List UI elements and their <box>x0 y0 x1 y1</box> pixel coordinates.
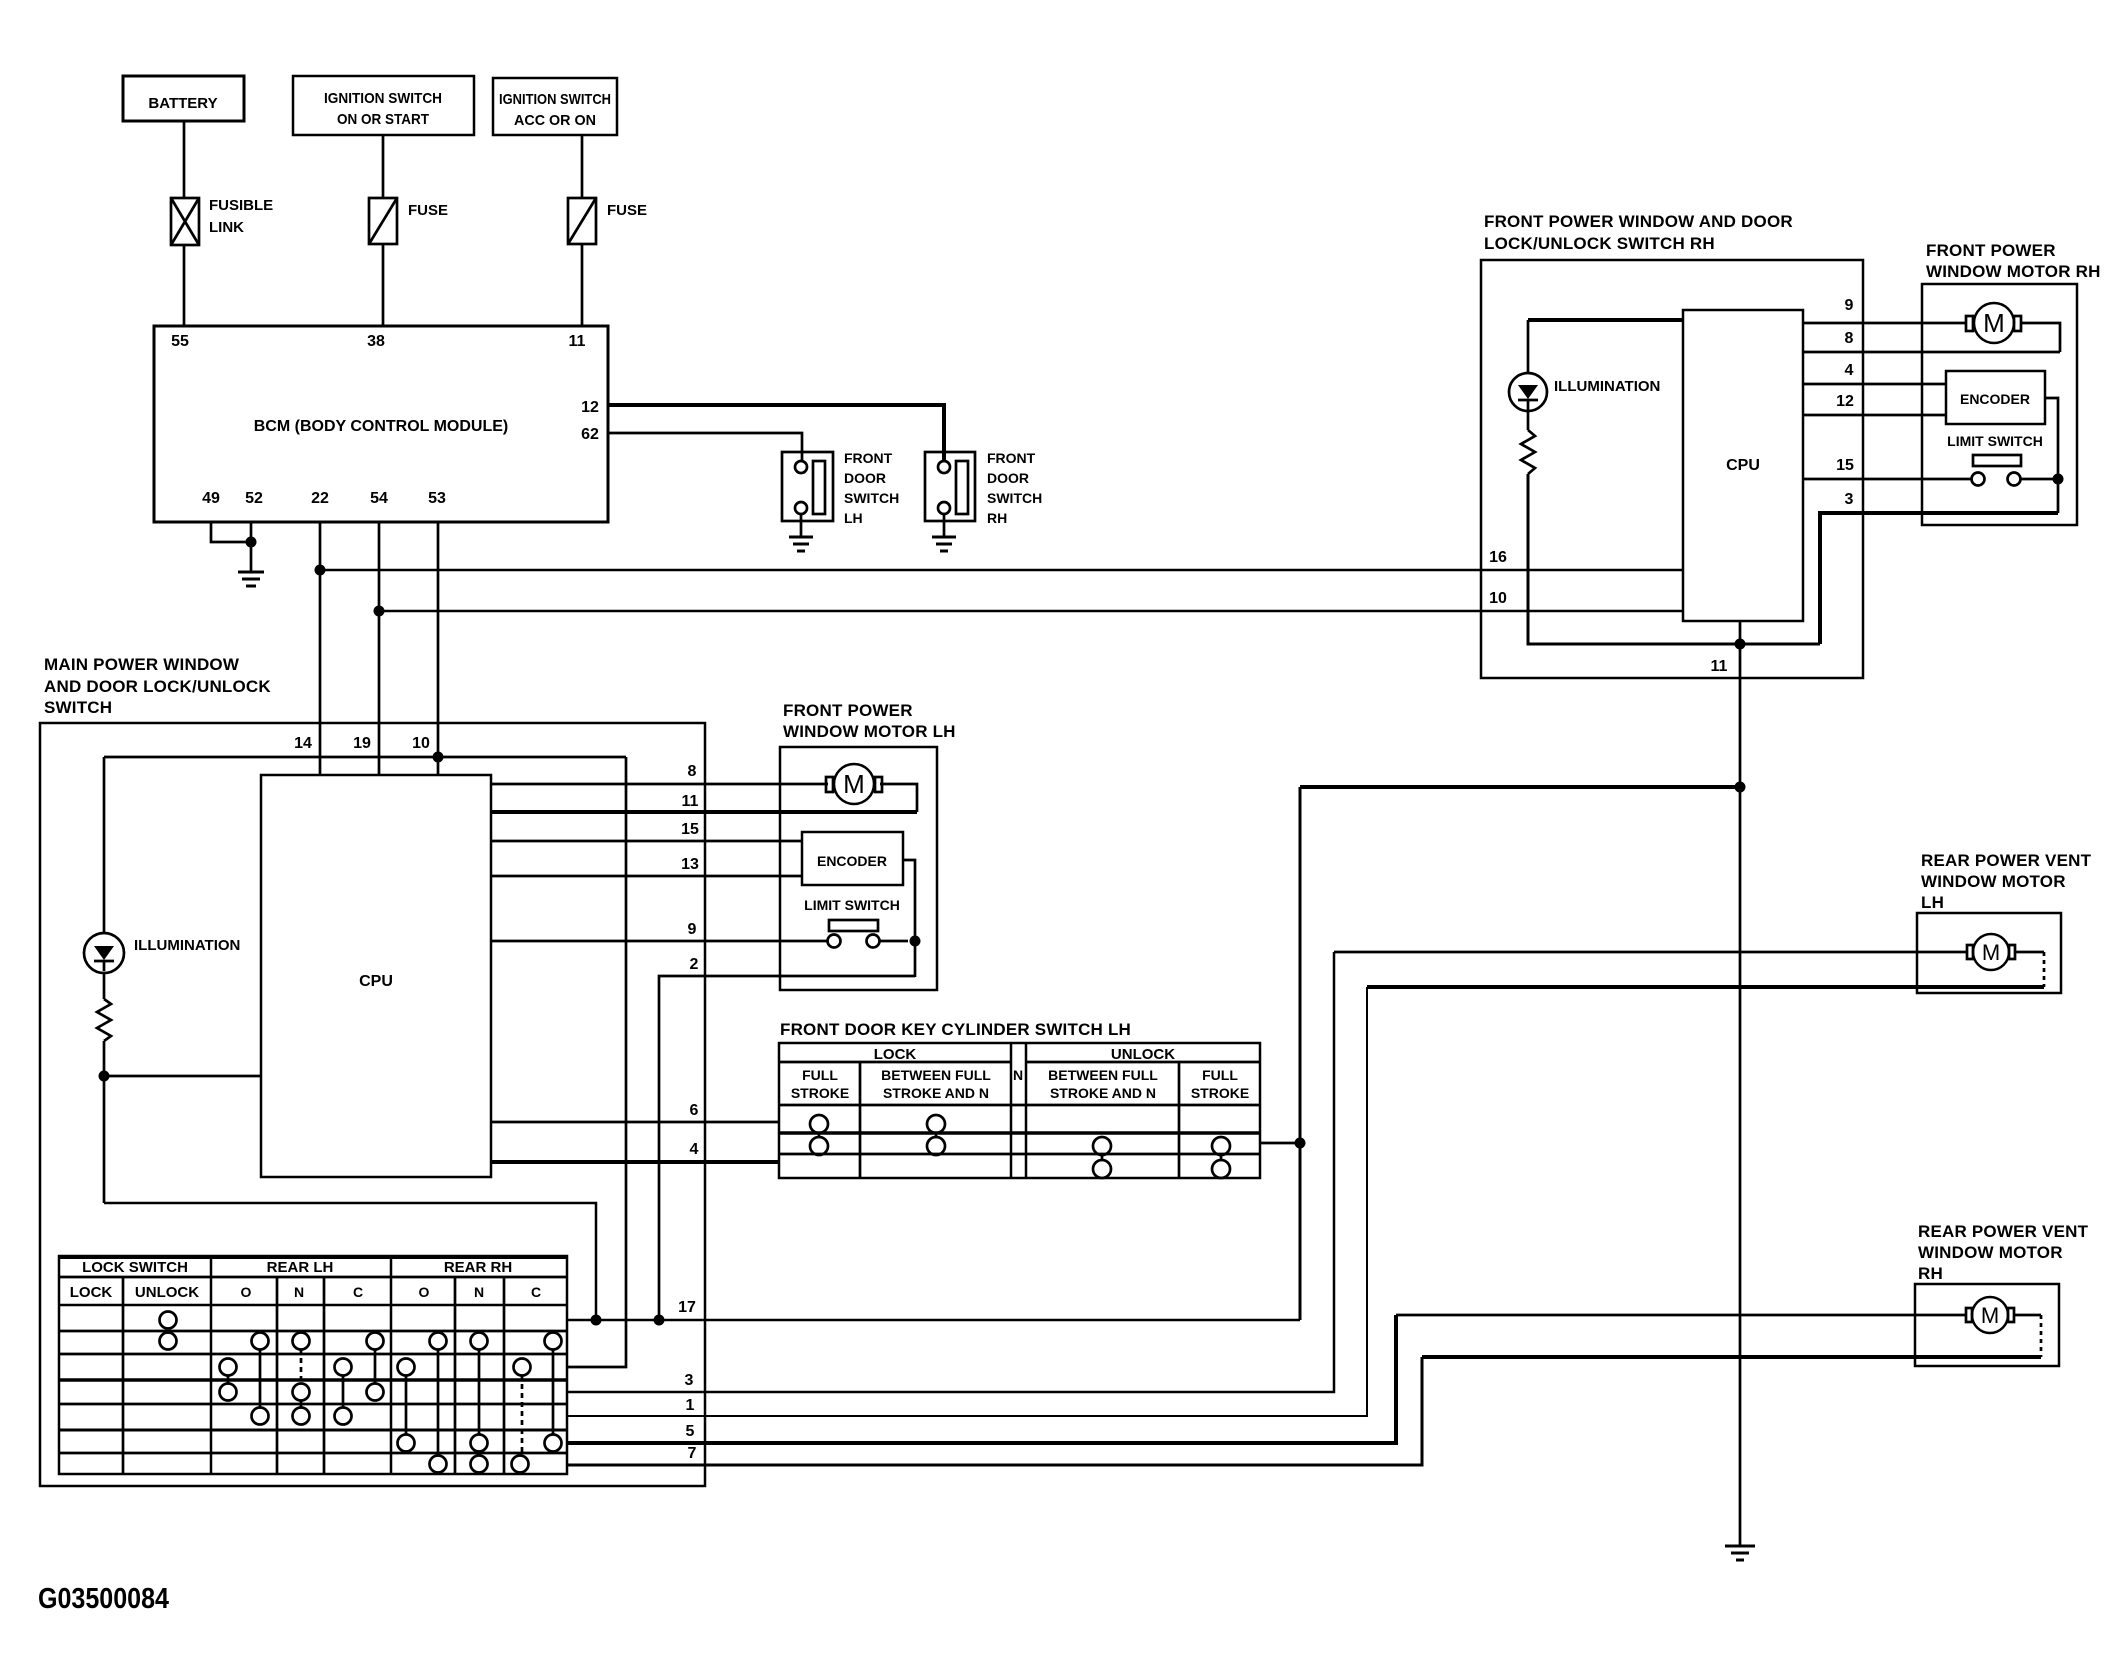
junction <box>654 1315 665 1326</box>
front power window and door lock/unlock switch RH title <box>1484 212 1793 253</box>
svg-text:8: 8 <box>688 763 697 780</box>
wire motor LH loop <box>880 784 917 812</box>
front door switch LH S1 <box>782 450 899 526</box>
wire CPU pin 15 to limit switch RH <box>1803 478 1971 481</box>
svg-text:55: 55 <box>171 333 189 350</box>
front power window and door lock/unlock switch RH box <box>1481 260 1863 678</box>
CPU U2 <box>261 775 491 1177</box>
wire ignition 2 to fuse F2 <box>581 135 584 198</box>
svg-text:RH: RH <box>987 510 1007 526</box>
wire BCM pin 22 down <box>319 522 322 775</box>
front door switch RH S2 <box>925 450 1042 526</box>
wire CPU pin 13 to encoder <box>491 875 802 878</box>
wire CPU pin 11 motor return <box>491 810 917 814</box>
svg-text:3: 3 <box>685 1372 694 1389</box>
svg-text:M: M <box>1983 308 2005 338</box>
wire 5 <box>567 1315 1396 1443</box>
svg-text:BETWEEN FULL: BETWEEN FULL <box>881 1067 991 1083</box>
wire resistor to pin 11 node RH <box>1528 474 1820 644</box>
fuse F2 <box>568 198 647 244</box>
svg-text:REAR LH: REAR LH <box>267 1259 334 1276</box>
wire pin 3 limit switch return <box>1820 513 2058 644</box>
node 53 junction <box>433 752 444 763</box>
svg-text:M: M <box>1981 1303 1999 1328</box>
fuse F1 <box>369 198 448 244</box>
wire illumination feed <box>104 756 626 759</box>
svg-text:LH: LH <box>1921 893 1944 912</box>
header BETWEEN FULL STROKE AND N unlock <box>1048 1067 1158 1101</box>
wire CPU pin 15 to encoder <box>491 840 802 843</box>
wire CPU pin 12 to encoder RH <box>1803 414 1946 417</box>
svg-text:FUSE: FUSE <box>607 202 647 219</box>
svg-text:O: O <box>419 1284 430 1300</box>
lock switch contacts row3 <box>220 1359 531 1376</box>
svg-text:11: 11 <box>1711 658 1728 675</box>
front power window motor RH title <box>1926 241 2101 281</box>
lock switch contacts unlock column <box>160 1312 177 1350</box>
wire 5 to vent motor RH <box>1396 1314 1966 1317</box>
wire resistor down <box>103 1041 106 1203</box>
svg-text:10: 10 <box>1489 590 1507 607</box>
svg-text:FRONT POWER WINDOW AND DOOR: FRONT POWER WINDOW AND DOOR <box>1484 212 1793 231</box>
wire encoder to limit switch junction RH <box>2045 398 2058 513</box>
svg-text:O: O <box>241 1284 252 1300</box>
svg-text:9: 9 <box>688 921 697 938</box>
svg-text:REAR RH: REAR RH <box>444 1259 512 1276</box>
junction <box>1735 782 1746 793</box>
wire fuse F1 to BCM pin 38 <box>382 244 385 326</box>
wire CPU pin 9 to limit switch <box>491 940 828 943</box>
rear power vent window motor RH title <box>1918 1222 2089 1283</box>
wire 1 <box>567 987 1367 1416</box>
main power window and door lock/unlock switch title <box>44 655 271 717</box>
svg-text:WINDOW MOTOR: WINDOW MOTOR <box>1921 872 2066 891</box>
svg-text:UNLOCK: UNLOCK <box>1111 1046 1175 1063</box>
wire BCM pin 54 down <box>378 522 381 775</box>
svg-text:54: 54 <box>370 490 388 507</box>
svg-text:11: 11 <box>569 333 586 350</box>
junction <box>910 936 921 947</box>
svg-text:STROKE AND N: STROKE AND N <box>1050 1085 1156 1101</box>
wire ignition 1 to fuse F1 <box>382 135 385 198</box>
header BETWEEN FULL STROKE AND N lock <box>881 1067 991 1101</box>
svg-text:ENCODER: ENCODER <box>1960 391 2030 407</box>
svg-text:M: M <box>843 769 865 799</box>
svg-text:10: 10 <box>412 735 430 752</box>
ignition switch ON OR START <box>293 76 474 135</box>
svg-text:LIMIT SWITCH: LIMIT SWITCH <box>1947 433 2043 449</box>
wire CPU pin 4 to encoder RH <box>1803 383 1946 386</box>
ground front door switch RH <box>932 514 956 551</box>
lock switch table <box>59 1256 567 1474</box>
lock switch contacts row5 <box>252 1408 352 1425</box>
svg-text:SWITCH: SWITCH <box>844 490 899 506</box>
lock switch contacts row6 <box>398 1435 562 1452</box>
wire 7 <box>567 1357 1422 1465</box>
wire BCM pin 49 to ground <box>211 522 251 542</box>
svg-text:FRONT DOOR KEY CYLINDER SWITCH: FRONT DOOR KEY CYLINDER SWITCH LH <box>780 1020 1131 1039</box>
svg-text:STROKE: STROKE <box>1191 1085 1249 1101</box>
svg-text:M: M <box>1982 940 2000 965</box>
wire CPU pin 4 to key cylinder switch <box>491 1160 779 1164</box>
svg-text:4: 4 <box>690 1141 699 1158</box>
svg-text:FRONT POWER: FRONT POWER <box>783 701 913 720</box>
svg-text:ACC OR ON: ACC OR ON <box>514 112 596 129</box>
wire bus 54 to RH pin 10 <box>379 610 1683 613</box>
svg-text:ON OR START: ON OR START <box>337 111 429 128</box>
svg-text:7: 7 <box>688 1445 697 1462</box>
wire encoder to limit switch junction <box>903 860 915 977</box>
svg-text:FUSE: FUSE <box>408 202 448 219</box>
svg-text:FULL: FULL <box>1202 1067 1238 1083</box>
front power window motor LH title <box>783 701 956 741</box>
ignition switch ACC OR ON <box>493 78 617 135</box>
key cylinder contacts unlock between <box>1093 1137 1111 1178</box>
wire 17 <box>567 1319 1300 1322</box>
wire BCM pin 12 to front door switch RH <box>608 405 944 461</box>
svg-text:C: C <box>531 1284 541 1300</box>
svg-text:FRONT: FRONT <box>844 450 893 466</box>
front power window motor LH box <box>780 747 937 990</box>
svg-text:8: 8 <box>1845 330 1854 347</box>
encoder LH <box>802 832 903 885</box>
motor M2 <box>1966 303 2021 343</box>
svg-text:LOCK/UNLOCK SWITCH RH: LOCK/UNLOCK SWITCH RH <box>1484 234 1715 253</box>
motor M1 <box>826 764 882 804</box>
rear power vent window motor LH title <box>1921 851 2092 912</box>
wire motor RH loop <box>2020 323 2060 352</box>
svg-text:LOCK: LOCK <box>70 1284 113 1301</box>
svg-text:N: N <box>474 1284 484 1300</box>
header FULL STROKE unlock <box>1191 1067 1249 1101</box>
ground front door switch LH <box>789 514 813 551</box>
svg-text:22: 22 <box>311 490 329 507</box>
front power window motor RH box <box>1922 284 2077 525</box>
svg-text:FULL: FULL <box>802 1067 838 1083</box>
illumination LED D2 <box>1509 373 1660 411</box>
svg-text:WINDOW MOTOR: WINDOW MOTOR <box>1918 1243 2063 1262</box>
wire riser key cylinder net <box>1299 787 1302 1320</box>
wire vent motor RH loop <box>2014 1315 2041 1357</box>
svg-text:DOOR: DOOR <box>844 470 886 486</box>
wire CPU pin 8 to motor LH <box>491 783 828 786</box>
rear power vent window motor LH box <box>1917 913 2061 993</box>
svg-text:ILLUMINATION: ILLUMINATION <box>134 937 240 954</box>
wire key cylinder output <box>1260 1142 1300 1145</box>
svg-text:ENCODER: ENCODER <box>817 853 887 869</box>
svg-text:DOOR: DOOR <box>987 470 1029 486</box>
svg-text:16: 16 <box>1489 549 1507 566</box>
svg-text:2: 2 <box>690 956 699 973</box>
svg-text:MAIN POWER WINDOW: MAIN POWER WINDOW <box>44 655 240 674</box>
svg-text:ILLUMINATION: ILLUMINATION <box>1554 378 1660 395</box>
svg-text:12: 12 <box>1836 393 1854 410</box>
battery B1 <box>123 76 244 121</box>
svg-text:REAR POWER VENT: REAR POWER VENT <box>1918 1222 2089 1241</box>
wire bus 22 to RH pin 16 <box>320 569 1683 572</box>
svg-text:N: N <box>1013 1067 1023 1083</box>
lock switch contacts row2 <box>252 1333 562 1350</box>
wire BCM pin 53 down <box>437 522 440 775</box>
wire battery to fusible link <box>183 121 186 198</box>
svg-text:15: 15 <box>1836 457 1854 474</box>
svg-text:52: 52 <box>245 490 263 507</box>
wire 1 to vent motor LH return <box>1367 985 2044 989</box>
junction <box>374 606 385 617</box>
wire node 53 feed to lock switch matrix <box>567 757 626 1367</box>
svg-text:REAR POWER VENT: REAR POWER VENT <box>1921 851 2092 870</box>
svg-text:53: 53 <box>428 490 446 507</box>
motor M3 <box>1967 934 2015 970</box>
illumination LED D1 <box>84 933 240 973</box>
svg-text:SWITCH: SWITCH <box>987 490 1042 506</box>
svg-text:3: 3 <box>1845 491 1854 508</box>
wire LED stem RH <box>1527 320 1530 373</box>
wire CPU pin 11 to ground <box>1739 621 1742 1546</box>
svg-text:FRONT: FRONT <box>987 450 1036 466</box>
limit switch LH <box>804 897 908 948</box>
svg-text:15: 15 <box>681 821 699 838</box>
wire 3 to vent motor LH <box>1334 951 1967 954</box>
svg-text:11: 11 <box>682 793 699 810</box>
svg-text:LH: LH <box>844 510 863 526</box>
svg-text:FUSIBLE: FUSIBLE <box>209 197 273 214</box>
svg-text:IGNITION SWITCH: IGNITION SWITCH <box>499 91 611 108</box>
svg-text:STROKE: STROKE <box>791 1085 849 1101</box>
svg-text:5: 5 <box>686 1423 695 1440</box>
ground RH <box>1725 1546 1755 1560</box>
wire CPU pin 6 to key cylinder switch <box>491 1121 779 1124</box>
svg-text:BETWEEN FULL: BETWEEN FULL <box>1048 1067 1158 1083</box>
junction <box>315 565 326 576</box>
ground BCM <box>238 572 264 586</box>
main power window switch box <box>40 723 705 1486</box>
svg-text:SWITCH: SWITCH <box>44 698 112 717</box>
key cylinder contacts lock full stroke <box>810 1115 828 1155</box>
svg-text:17: 17 <box>678 1299 696 1316</box>
svg-text:RH: RH <box>1918 1264 1943 1283</box>
lock switch contacts row7 <box>430 1456 529 1473</box>
header FULL STROKE lock <box>791 1067 849 1101</box>
CPU U3 <box>1683 310 1803 621</box>
svg-text:6: 6 <box>690 1102 699 1119</box>
svg-text:49: 49 <box>202 490 220 507</box>
svg-text:4: 4 <box>1845 362 1854 379</box>
wire fusible link to BCM pin 55 <box>183 245 186 326</box>
lock switch connector bars <box>228 1349 553 1456</box>
svg-text:UNLOCK: UNLOCK <box>135 1284 199 1301</box>
wire BCM pin 62 to front door switch LH <box>608 433 802 461</box>
svg-text:FRONT POWER: FRONT POWER <box>1926 241 2056 260</box>
svg-text:C: C <box>353 1284 363 1300</box>
svg-text:12: 12 <box>581 399 599 416</box>
junction <box>246 537 257 548</box>
resistor R1 <box>97 999 111 1041</box>
key cylinder contacts lock between <box>927 1115 945 1155</box>
wire CPU pin 9 to motor RH <box>1803 322 1966 325</box>
svg-text:13: 13 <box>681 856 699 873</box>
svg-text:LOCK: LOCK <box>874 1046 917 1063</box>
junction <box>2053 474 2064 485</box>
svg-text:N: N <box>294 1284 304 1300</box>
svg-text:38: 38 <box>367 333 385 350</box>
resistor R2 <box>1521 430 1535 474</box>
svg-text:LOCK SWITCH: LOCK SWITCH <box>82 1259 188 1276</box>
encoder RH <box>1946 371 2045 424</box>
svg-text:1: 1 <box>686 1397 695 1414</box>
wire LED stem <box>103 757 106 934</box>
svg-text:STROKE AND N: STROKE AND N <box>883 1085 989 1101</box>
svg-text:LIMIT SWITCH: LIMIT SWITCH <box>804 897 900 913</box>
wire LED to resistor <box>103 973 106 999</box>
junction <box>1735 639 1746 650</box>
wire BCM pin 52 to ground <box>250 522 253 572</box>
svg-text:CPU: CPU <box>359 973 393 990</box>
svg-text:BATTERY: BATTERY <box>148 95 217 112</box>
svg-text:WINDOW MOTOR RH: WINDOW MOTOR RH <box>1926 262 2101 281</box>
svg-text:19: 19 <box>353 735 371 752</box>
wire LED to resistor RH <box>1527 411 1530 430</box>
wire 3 <box>567 952 1334 1392</box>
svg-text:IGNITION SWITCH: IGNITION SWITCH <box>324 90 442 107</box>
motor M4 <box>1966 1297 2014 1333</box>
junction <box>1295 1138 1306 1149</box>
svg-text:9: 9 <box>1845 297 1854 314</box>
svg-text:AND DOOR LOCK/UNLOCK: AND DOOR LOCK/UNLOCK <box>44 677 271 696</box>
wire key cylinder net to ground bus <box>1300 785 1740 789</box>
wire CPU pin 8 motor return <box>1803 351 2060 354</box>
svg-text:CPU: CPU <box>1726 457 1760 474</box>
BCM (body control module) U1 <box>154 326 608 522</box>
fusible link FL <box>171 197 273 245</box>
wire 7 to vent motor RH return <box>1422 1355 2041 1359</box>
rear power vent window motor RH box <box>1915 1284 2059 1366</box>
wire illumination to CPU <box>104 1075 261 1078</box>
wire pin 2 limit switch to node 17 <box>659 976 915 1320</box>
lock switch contacts row4 <box>220 1384 384 1401</box>
key cylinder switch table <box>779 1043 1260 1178</box>
svg-text:BCM (BODY CONTROL MODULE): BCM (BODY CONTROL MODULE) <box>254 418 509 435</box>
junction <box>591 1315 602 1326</box>
svg-text:G03500084: G03500084 <box>38 1583 169 1615</box>
junction <box>99 1071 110 1082</box>
key cylinder contacts unlock full stroke <box>1212 1137 1230 1178</box>
limit switch RH <box>1947 433 2053 486</box>
wire illumination feed RH <box>1528 318 1683 322</box>
wire illumination drop to node 17 <box>104 1203 596 1320</box>
svg-text:14: 14 <box>294 735 312 752</box>
svg-text:LINK: LINK <box>209 219 244 236</box>
svg-text:WINDOW MOTOR LH: WINDOW MOTOR LH <box>783 722 956 741</box>
wire vent motor LH loop <box>2015 952 2044 987</box>
svg-text:62: 62 <box>581 426 599 443</box>
wire fuse F2 to BCM pin 11 <box>581 244 584 326</box>
